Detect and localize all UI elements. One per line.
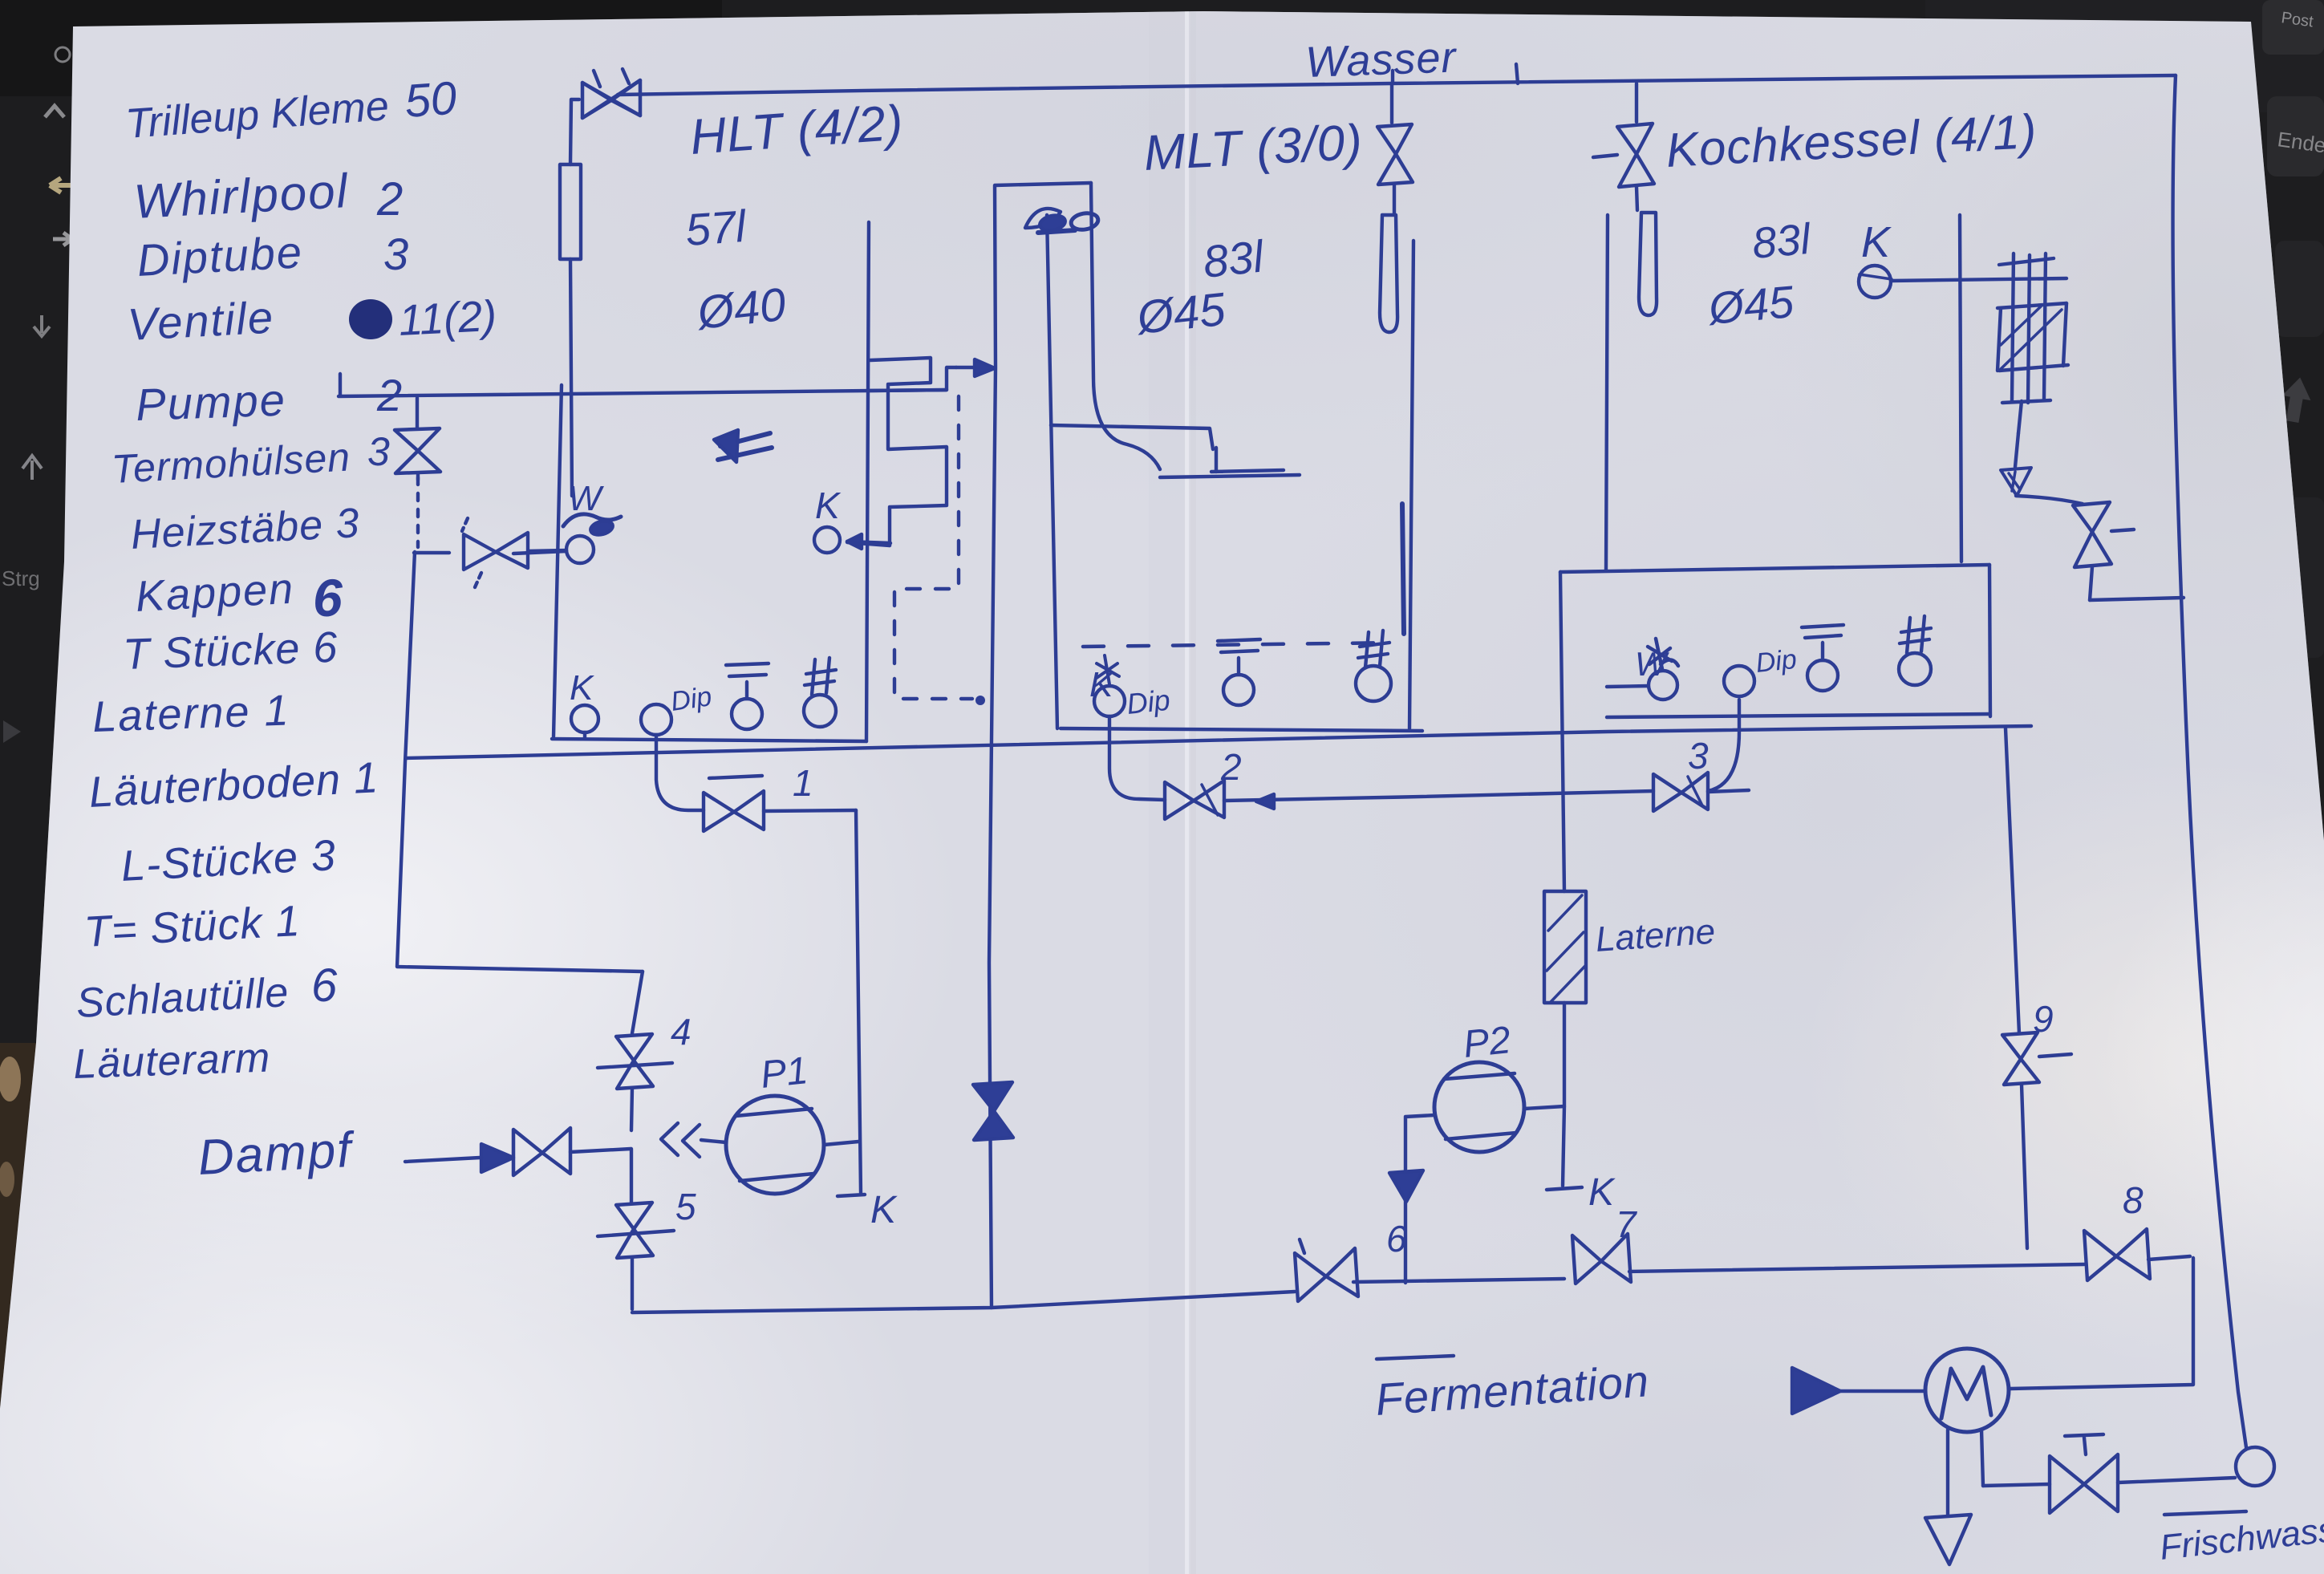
- svg-text:Pumpe: Pumpe: [135, 374, 287, 430]
- svg-text:K: K: [1588, 1171, 1616, 1214]
- svg-text:Laterne: Laterne: [1594, 912, 1716, 959]
- svg-text:Ø45: Ø45: [1705, 276, 1797, 334]
- svg-text:3: 3: [383, 229, 408, 279]
- svg-text:Kappen: Kappen: [134, 565, 295, 621]
- svg-text:Wasser: Wasser: [1304, 33, 1458, 87]
- svg-text:Dip: Dip: [1754, 644, 1799, 679]
- svg-text:4: 4: [671, 1011, 692, 1053]
- svg-text:1: 1: [793, 762, 813, 804]
- svg-text:Laterne 1: Laterne 1: [91, 686, 290, 741]
- svg-text:Ventile: Ventile: [126, 291, 275, 349]
- svg-text:Strg: Strg: [2, 566, 40, 590]
- svg-text:9: 9: [2033, 998, 2054, 1040]
- svg-text:P1: P1: [759, 1049, 810, 1097]
- svg-text:K: K: [1089, 665, 1114, 704]
- svg-text:K: K: [1861, 218, 1892, 266]
- svg-text:Dampf: Dampf: [197, 1122, 357, 1186]
- svg-text:K: K: [570, 668, 594, 708]
- svg-text:Dip: Dip: [1125, 684, 1172, 720]
- svg-text:Dip: Dip: [669, 681, 714, 717]
- svg-text:W: W: [1635, 645, 1669, 683]
- svg-text:2: 2: [1220, 746, 1242, 788]
- svg-text:Diptube: Diptube: [136, 226, 304, 286]
- svg-text:11(2): 11(2): [397, 292, 497, 345]
- svg-text:K: K: [815, 485, 842, 526]
- svg-text:T Stücke 6: T Stücke 6: [122, 623, 339, 679]
- svg-text:MLT (3/0): MLT (3/0): [1142, 115, 1364, 181]
- svg-text:57l: 57l: [683, 201, 748, 255]
- svg-text:6: 6: [313, 568, 343, 627]
- svg-text:P2: P2: [1462, 1019, 1513, 1066]
- svg-text:Whirlpool: Whirlpool: [132, 164, 350, 229]
- svg-text:8: 8: [2123, 1179, 2144, 1221]
- svg-text:6: 6: [311, 959, 338, 1012]
- svg-text:2: 2: [376, 370, 402, 420]
- svg-text:W: W: [568, 479, 604, 518]
- svg-text:50: 50: [403, 72, 458, 128]
- svg-text:5: 5: [675, 1186, 696, 1227]
- svg-text:83l: 83l: [1750, 215, 1814, 268]
- svg-text:3: 3: [367, 429, 390, 474]
- svg-text:Läuterarm: Läuterarm: [72, 1034, 271, 1088]
- svg-text:Ø45: Ø45: [1134, 283, 1229, 344]
- svg-text:7: 7: [1616, 1203, 1637, 1245]
- svg-text:K: K: [870, 1189, 898, 1231]
- svg-text:6: 6: [1386, 1218, 1407, 1260]
- svg-text:Ø40: Ø40: [694, 278, 789, 339]
- svg-text:83l: 83l: [1201, 230, 1267, 287]
- svg-text:2: 2: [376, 173, 403, 225]
- svg-text:3: 3: [1688, 735, 1709, 777]
